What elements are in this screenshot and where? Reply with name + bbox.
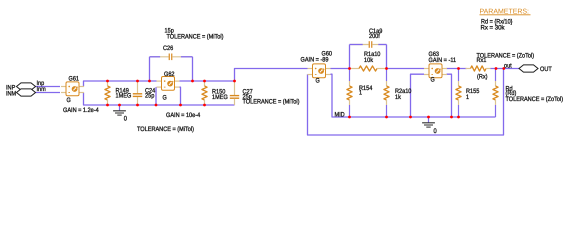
svg-text:(Rx): (Rx) [477, 74, 488, 81]
svg-text:GAIN = -11: GAIN = -11 [429, 57, 457, 64]
svg-text:Rx = 30k: Rx = 30k [481, 24, 506, 31]
svg-text:1MEG: 1MEG [212, 94, 228, 101]
svg-text:G: G [316, 77, 320, 84]
svg-text:MID: MID [335, 111, 346, 118]
svg-text:TOLERANCE = (MiTol): TOLERANCE = (MiTol) [167, 33, 224, 40]
svg-text:G61: G61 [69, 75, 80, 82]
svg-text:1k: 1k [395, 94, 402, 101]
svg-text:Rx1: Rx1 [477, 57, 487, 64]
svg-text:1: 1 [359, 90, 362, 97]
svg-text:Inm: Inm [37, 86, 46, 93]
svg-text:GAIN = 10e-4: GAIN = 10e-4 [166, 112, 201, 119]
svg-text:C26: C26 [163, 45, 174, 52]
svg-text:200f: 200f [369, 33, 380, 40]
svg-text:out: out [504, 62, 512, 69]
svg-text:OUT: OUT [540, 66, 552, 73]
svg-text:25p: 25p [145, 92, 155, 99]
svg-text:TOLERANCE = (ZoTol): TOLERANCE = (ZoTol) [506, 96, 564, 103]
svg-text:G: G [163, 95, 167, 102]
svg-text:TOLERANCE = (MiTol): TOLERANCE = (MiTol) [243, 99, 300, 106]
svg-text:TOLERANCE = (MiTol): TOLERANCE = (MiTol) [137, 126, 194, 133]
svg-text:10k: 10k [364, 57, 374, 64]
svg-text:G: G [67, 97, 71, 104]
svg-text:1: 1 [466, 94, 469, 101]
svg-text:G62: G62 [164, 71, 175, 78]
svg-text:0: 0 [434, 128, 437, 135]
svg-text:GAIN = 1.2e-4: GAIN = 1.2e-4 [63, 107, 99, 114]
svg-text:1MEG: 1MEG [116, 92, 132, 99]
svg-text:G: G [431, 76, 435, 83]
svg-text:0: 0 [124, 116, 127, 123]
svg-text:INM: INM [6, 90, 16, 97]
svg-text:GAIN = -89: GAIN = -89 [301, 57, 329, 64]
